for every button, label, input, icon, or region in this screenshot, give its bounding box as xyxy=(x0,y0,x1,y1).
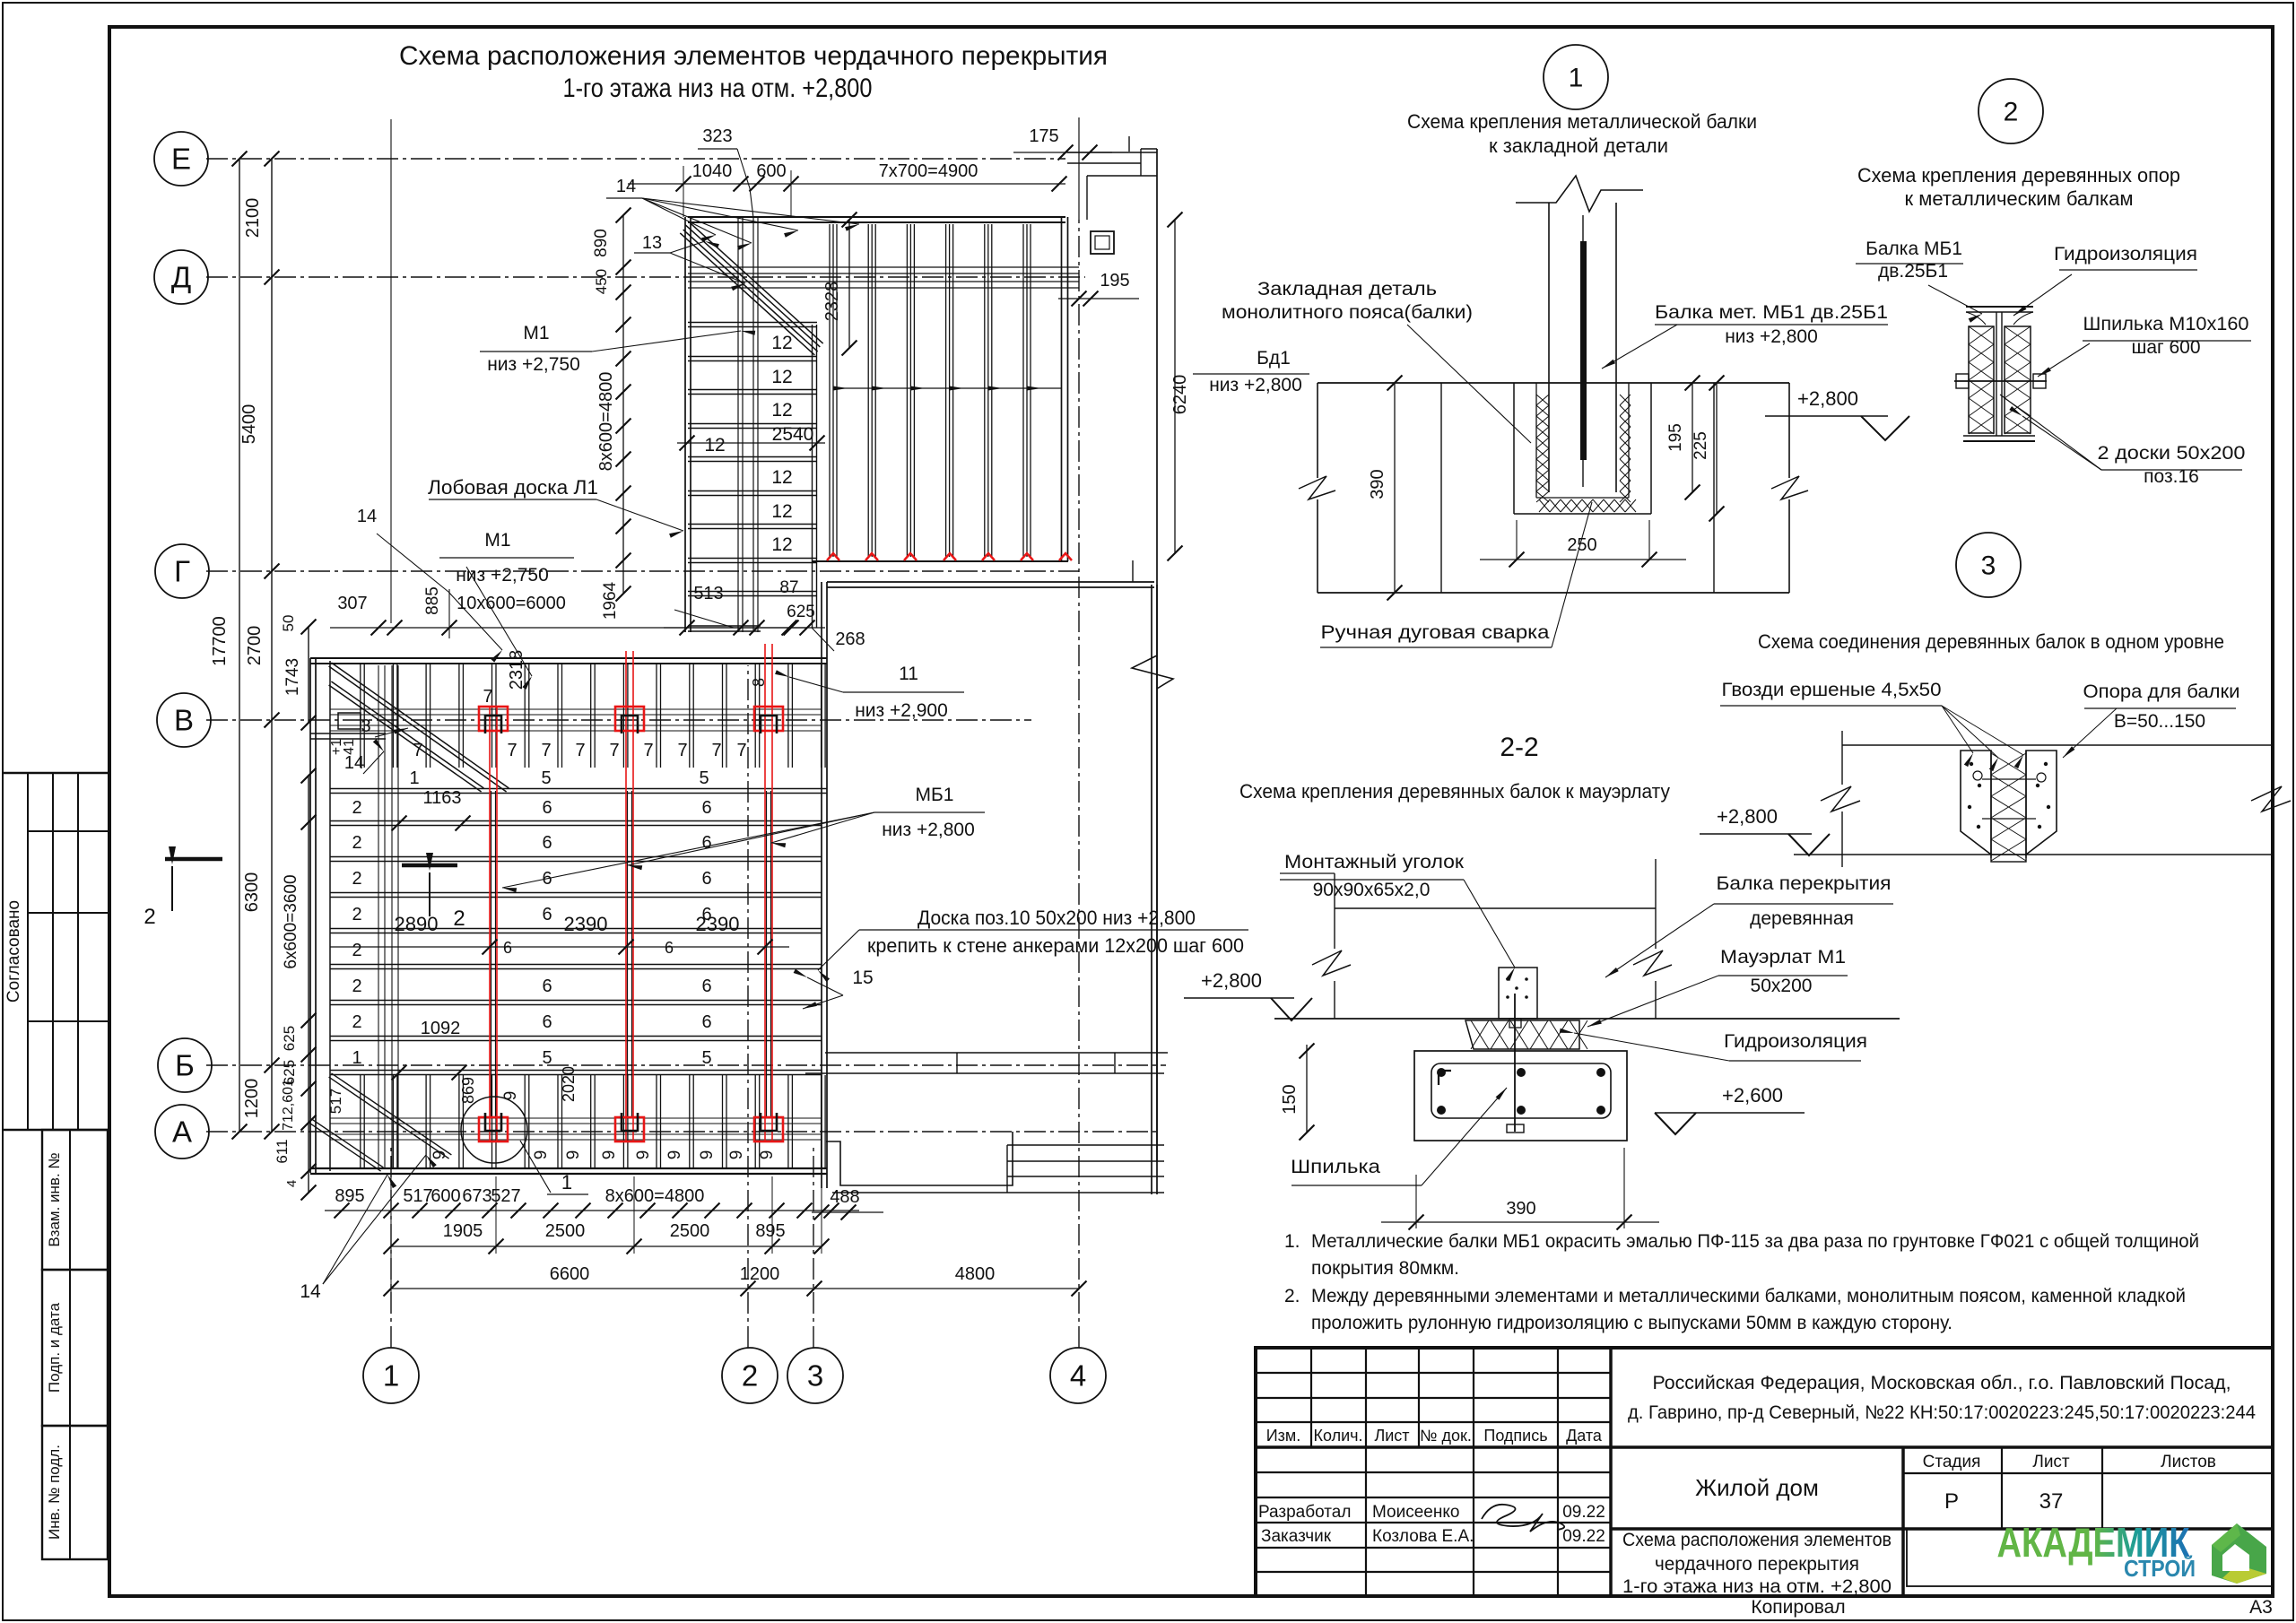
svg-text:195: 195 xyxy=(1666,423,1685,452)
svg-text:12: 12 xyxy=(771,367,792,387)
upper field right chord xyxy=(1061,217,1063,561)
upper field bottom edge xyxy=(812,560,1068,562)
dim 250 xyxy=(1516,520,1518,560)
detail 1 belt bottom xyxy=(1318,592,1789,594)
svg-text:11: 11 xyxy=(899,664,918,684)
svg-text:2500: 2500 xyxy=(670,1221,710,1241)
svg-text:5: 5 xyxy=(699,768,709,788)
svg-text:14: 14 xyxy=(616,177,636,196)
axis circle E xyxy=(154,132,208,186)
axis circle V xyxy=(157,693,211,747)
upper field left chord xyxy=(684,217,686,632)
svg-text:90х90х65х2,0: 90х90х65х2,0 xyxy=(1313,880,1431,900)
svg-text:6: 6 xyxy=(542,798,552,818)
svg-text:Согласовано: Согласовано xyxy=(4,900,23,1002)
svg-text:Схема соединения деревянных ба: Схема соединения деревянных балок в одно… xyxy=(1758,630,2224,653)
svg-text:Изм.: Изм. xyxy=(1266,1427,1301,1445)
vert dim chain 8x600 xyxy=(622,215,624,594)
svg-text:7: 7 xyxy=(507,741,517,760)
d3 hanger right plate xyxy=(2026,751,2057,855)
d2 web xyxy=(1996,312,1997,436)
svg-text:6600: 6600 xyxy=(550,1264,590,1284)
axis A line xyxy=(206,1131,1157,1133)
axis circle 3 xyxy=(787,1348,843,1403)
d3 nail dots xyxy=(1970,762,1973,766)
svg-text:9: 9 xyxy=(698,1150,717,1160)
svg-text:Заказчик: Заказчик xyxy=(1261,1527,1332,1546)
svg-text:12: 12 xyxy=(771,333,792,353)
left margin table Inv N podl xyxy=(42,1426,108,1559)
axis V beam band xyxy=(330,708,822,710)
left dim chain inner xyxy=(271,159,273,1132)
svg-text:2-2: 2-2 xyxy=(1500,733,1538,762)
svg-text:А: А xyxy=(172,1115,192,1149)
svg-text:390: 390 xyxy=(1506,1199,1535,1219)
svg-text:7: 7 xyxy=(609,741,619,760)
svg-text:225: 225 xyxy=(1692,431,1710,460)
lower field top chord xyxy=(310,663,827,664)
row V bottom line xyxy=(330,793,827,794)
svg-text:895: 895 xyxy=(335,1186,364,1206)
svg-text:5: 5 xyxy=(542,1048,552,1068)
svg-text:Д: Д xyxy=(171,261,191,294)
detail 1 circle xyxy=(1544,45,1608,109)
svg-text:2: 2 xyxy=(352,798,361,818)
svg-text:2390: 2390 xyxy=(696,913,740,935)
svg-text:1-го этажа низ на отм. +2,800: 1-го этажа низ на отм. +2,800 xyxy=(1622,1576,1892,1597)
svg-text:17700: 17700 xyxy=(210,616,230,666)
svg-text:1: 1 xyxy=(352,1048,361,1068)
dim 225 xyxy=(1716,383,1718,514)
section mark 2 inner xyxy=(402,864,457,868)
axis circle 1 xyxy=(363,1348,419,1403)
bottom dim chain 2 xyxy=(391,1245,822,1247)
diag lower top-left 2 xyxy=(329,685,482,792)
bottom dim chain 3 xyxy=(391,1288,1079,1289)
svg-text:9: 9 xyxy=(532,1150,551,1160)
s22 bolt top xyxy=(1509,1019,1521,1028)
svg-text:3: 3 xyxy=(807,1359,823,1393)
svg-text:1200: 1200 xyxy=(242,1079,262,1119)
axis 4 line xyxy=(1078,220,1080,1348)
svg-text:4: 4 xyxy=(284,1180,300,1187)
svg-text:+2,800: +2,800 xyxy=(1717,805,1778,828)
red beams xyxy=(489,706,491,1141)
svg-text:2: 2 xyxy=(352,869,361,889)
diag lower top-left 1 xyxy=(329,666,507,792)
diag bottom-left 1 xyxy=(329,1077,449,1159)
svg-text:Монтажный уголок: Монтажный уголок xyxy=(1284,852,1465,872)
svg-text:монолитного пояса(балки): монолитного пояса(балки) xyxy=(1222,302,1473,323)
svg-text:2020: 2020 xyxy=(560,1066,578,1102)
svg-text:3: 3 xyxy=(1981,551,1996,581)
svg-text:2: 2 xyxy=(352,1012,361,1032)
svg-text:Металлические балки МБ1 окраси: Металлические балки МБ1 окрасить эмалью … xyxy=(1311,1231,2199,1252)
dim line 2540 xyxy=(677,442,825,444)
left margin table Podp i data xyxy=(42,1270,108,1426)
svg-text:12: 12 xyxy=(704,435,725,456)
svg-text:Стадия: Стадия xyxy=(1923,1453,1981,1471)
svg-text:Гидроизоляция: Гидроизоляция xyxy=(1724,1031,1867,1052)
detail 1 beam break top xyxy=(1516,176,1643,212)
svg-text:150: 150 xyxy=(1280,1084,1300,1114)
d2 right board xyxy=(2005,326,2031,433)
signature xyxy=(1482,1505,1564,1532)
svg-text:37: 37 xyxy=(2039,1489,2064,1514)
svg-text:307: 307 xyxy=(337,594,367,613)
svg-text:Жилой дом: Жилой дом xyxy=(1695,1474,1819,1501)
svg-text:+2,600: +2,600 xyxy=(1722,1084,1783,1107)
left margin table Soglasovano xyxy=(3,772,109,774)
svg-text:покрытия 80мкм.: покрытия 80мкм. xyxy=(1311,1258,1459,1279)
svg-text:1.: 1. xyxy=(1284,1231,1300,1252)
svg-text:885: 885 xyxy=(423,586,442,615)
svg-text:Е: Е xyxy=(171,143,191,176)
dim chain mid xyxy=(664,627,807,629)
svg-text:09.22: 09.22 xyxy=(1562,1527,1605,1546)
lower field inner left xyxy=(329,661,331,1171)
dim 390 xyxy=(1394,383,1396,593)
detail 1 black plate xyxy=(1580,241,1587,460)
svg-text:268: 268 xyxy=(835,629,865,649)
svg-text:9: 9 xyxy=(634,1150,653,1160)
svg-text:Схема крепления металлической: Схема крепления металлической балки xyxy=(1407,110,1757,133)
svg-text:195: 195 xyxy=(1100,271,1129,291)
row line 1196 xyxy=(330,1074,822,1076)
lower field left chord xyxy=(309,658,311,1173)
svg-text:6: 6 xyxy=(542,833,552,853)
svg-text:611: 611 xyxy=(274,1139,291,1163)
axis B line xyxy=(206,1064,1166,1066)
svg-text:6: 6 xyxy=(701,798,711,818)
pocket hatch X right xyxy=(1620,395,1631,405)
svg-text:1163: 1163 xyxy=(422,788,461,808)
axis circle G xyxy=(155,544,209,598)
svg-text:7x700=4900: 7x700=4900 xyxy=(879,161,978,181)
axis circle A xyxy=(155,1105,209,1159)
room break right xyxy=(1132,655,1173,689)
svg-text:Гидроизоляция: Гидроизоляция xyxy=(2054,244,2197,265)
svg-text:7: 7 xyxy=(677,741,687,760)
axis1 beam strip xyxy=(378,665,379,1169)
svg-text:600: 600 xyxy=(430,1186,460,1206)
detail 1 pocket xyxy=(1513,383,1515,514)
svg-text:12: 12 xyxy=(771,534,792,555)
svg-text:6: 6 xyxy=(701,833,711,853)
axis E line xyxy=(206,158,1065,160)
svg-text:7: 7 xyxy=(575,741,585,760)
svg-text:13: 13 xyxy=(642,233,662,253)
s22 corner plate xyxy=(1499,968,1537,1019)
room outline xyxy=(821,582,822,1188)
svg-text:к закладной детали: к закладной детали xyxy=(1489,135,1668,157)
node circle at first A square xyxy=(461,1097,527,1163)
svg-text:Моисеенко: Моисеенко xyxy=(1372,1503,1459,1522)
svg-text:низ +2,800: низ +2,800 xyxy=(882,820,975,840)
svg-text:М1: М1 xyxy=(523,323,549,343)
black beam lines under red xyxy=(491,791,492,1117)
svg-text:2: 2 xyxy=(352,941,361,960)
window square xyxy=(1091,231,1114,254)
upper field top chord xyxy=(688,221,1065,223)
svg-text:87: 87 xyxy=(779,578,798,597)
svg-text:9: 9 xyxy=(564,1150,583,1160)
axis 1 upper extension xyxy=(390,119,392,623)
svg-text:6300: 6300 xyxy=(242,872,262,913)
svg-text:6: 6 xyxy=(542,976,552,996)
d3 right vertical + break xyxy=(2271,731,2273,785)
svg-text:Инв. № подл.: Инв. № подл. xyxy=(46,1445,63,1540)
s22 stud vertical xyxy=(1514,1019,1516,1132)
svg-text:Закладная деталь: Закладная деталь xyxy=(1257,279,1437,299)
svg-text:+2,800: +2,800 xyxy=(1797,387,1858,410)
diag bottom-left 2 xyxy=(309,1123,381,1171)
axis G line xyxy=(206,570,1079,572)
d3 center strip hatch xyxy=(1990,751,1992,858)
svg-text:Балка перекрытия: Балка перекрытия xyxy=(1717,873,1892,894)
svg-text:9: 9 xyxy=(758,1150,777,1160)
svg-text:Лист: Лист xyxy=(1374,1427,1409,1445)
title block horizontals xyxy=(1256,1372,1611,1374)
M1 piece rect xyxy=(338,713,361,729)
pocket hatch X left xyxy=(1536,395,1549,405)
svg-text:517: 517 xyxy=(403,1186,432,1206)
s22 level line xyxy=(1274,1018,1900,1020)
s22 concrete beam xyxy=(1414,1051,1627,1141)
svg-text:2 доски 50х200: 2 доски 50х200 xyxy=(2098,443,2246,464)
axis 3 line xyxy=(813,1148,814,1348)
svg-text:1: 1 xyxy=(383,1359,399,1393)
svg-text:1: 1 xyxy=(561,1171,572,1193)
svg-text:2328: 2328 xyxy=(822,282,842,322)
svg-text:Разработал: Разработал xyxy=(1258,1503,1351,1522)
section mark 2 left xyxy=(165,857,222,862)
d2 bottom flange xyxy=(1963,435,2035,437)
svg-text:7: 7 xyxy=(541,741,551,760)
svg-text:2100: 2100 xyxy=(243,198,263,239)
svg-text:527: 527 xyxy=(491,1186,520,1206)
svg-text:890: 890 xyxy=(592,229,611,257)
svg-text:Лист: Лист xyxy=(2032,1453,2070,1471)
svg-text:8х600=4800: 8х600=4800 xyxy=(605,1186,705,1206)
dim 2328 xyxy=(848,220,850,348)
pocket hatch X bottom xyxy=(1539,499,1550,512)
upper field vertical joists xyxy=(829,224,831,557)
axis D line xyxy=(206,276,1085,278)
svg-text:8x600=4800: 8x600=4800 xyxy=(596,372,616,472)
svg-text:2: 2 xyxy=(742,1359,758,1393)
svg-text:2500: 2500 xyxy=(545,1221,586,1241)
svg-text:Бд1: Бд1 xyxy=(1257,348,1291,369)
svg-text:Копировал: Копировал xyxy=(1751,1597,1845,1618)
axis2 beam strip upper xyxy=(737,217,739,632)
joists 9 vertical row xyxy=(360,1075,361,1169)
svg-text:9: 9 xyxy=(665,1150,684,1160)
svg-text:низ +2,800: низ +2,800 xyxy=(1209,375,1302,395)
svg-text:СТРОЙ: СТРОЙ xyxy=(2124,1555,2196,1582)
svg-text:2: 2 xyxy=(143,905,155,929)
svg-text:488: 488 xyxy=(830,1187,859,1207)
svg-text:Лобовая доска Л1: Лобовая доска Л1 xyxy=(428,476,598,499)
svg-text:Козлова Е.А.: Козлова Е.А. xyxy=(1372,1527,1474,1546)
svg-text:Колич.: Колич. xyxy=(1313,1427,1362,1445)
joists horizontal 2/6 rows xyxy=(330,825,822,827)
svg-text:4: 4 xyxy=(1070,1359,1086,1393)
d2 left board xyxy=(1969,326,1994,433)
svg-text:7: 7 xyxy=(413,741,422,760)
spacing arrows line xyxy=(833,387,1062,389)
svg-text:Ручная дуговая сварка: Ручная дуговая сварка xyxy=(1321,622,1550,643)
svg-text:09.22: 09.22 xyxy=(1562,1503,1605,1522)
logo cell border xyxy=(1907,1529,2273,1586)
svg-text:895: 895 xyxy=(755,1221,785,1241)
svg-text:1743: 1743 xyxy=(283,658,302,696)
svg-text:6: 6 xyxy=(701,1012,711,1032)
svg-text:Балка МБ1: Балка МБ1 xyxy=(1865,239,1962,259)
svg-text:12: 12 xyxy=(771,467,792,488)
svg-text:2: 2 xyxy=(352,905,361,924)
svg-text:Доска поз.10 50х200 низ +2,800: Доска поз.10 50х200 низ +2,800 xyxy=(918,907,1196,929)
svg-text:низ +2,750: низ +2,750 xyxy=(487,354,580,375)
svg-text:Р: Р xyxy=(1944,1489,1959,1514)
title block outer xyxy=(1256,1348,2273,1596)
detail 1 belt left/right xyxy=(1317,383,1318,478)
svg-text:6: 6 xyxy=(701,869,711,889)
svg-text:+2,800: +2,800 xyxy=(1201,969,1262,992)
svg-text:2: 2 xyxy=(453,907,465,931)
detail 1 beam columns xyxy=(1548,203,1550,492)
svg-text:Гвозди ершеные 4,5х50: Гвозди ершеные 4,5х50 xyxy=(1722,680,1942,700)
svg-text:1: 1 xyxy=(1569,64,1584,93)
axis circle 2 xyxy=(722,1348,778,1403)
svg-text:2540: 2540 xyxy=(772,424,814,445)
svg-text:Г: Г xyxy=(174,555,190,588)
left dim chain outer 17700 xyxy=(239,159,240,1132)
svg-text:МБ1: МБ1 xyxy=(916,785,954,805)
s22 dim 390 xyxy=(1415,1175,1417,1228)
dim 195 xyxy=(1692,383,1693,492)
svg-text:513: 513 xyxy=(693,584,723,603)
svg-text:№ док.: № док. xyxy=(1420,1427,1472,1445)
dim 6240 xyxy=(1174,220,1176,553)
svg-text:2318: 2318 xyxy=(507,650,526,690)
svg-text:712,601: 712,601 xyxy=(281,1079,296,1131)
red squares at A xyxy=(479,1117,508,1141)
svg-text:А3: А3 xyxy=(2249,1597,2273,1618)
axis circle D xyxy=(154,250,208,304)
svg-text:Схема расположения элементов: Схема расположения элементов xyxy=(1622,1530,1892,1550)
svg-text:Российская Федерация, Московск: Российская Федерация, Московская обл., г… xyxy=(1653,1373,2231,1393)
svg-text:1964: 1964 xyxy=(601,581,620,620)
svg-text:1200: 1200 xyxy=(740,1264,780,1284)
svg-text:7: 7 xyxy=(643,741,653,760)
svg-text:1: 1 xyxy=(409,768,419,788)
svg-text:9: 9 xyxy=(430,1150,449,1160)
svg-text:323: 323 xyxy=(702,126,732,146)
svg-text:Шпилька: Шпилька xyxy=(1291,1157,1380,1177)
svg-text:14: 14 xyxy=(300,1281,321,1302)
wall lower segment right xyxy=(1132,560,1134,582)
axis circle 4 xyxy=(1050,1348,1106,1403)
svg-text:625: 625 xyxy=(787,603,815,621)
svg-text:Схема крепления деревянных бал: Схема крепления деревянных балок к мауэр… xyxy=(1239,780,1670,803)
svg-text:6: 6 xyxy=(701,976,711,996)
svg-text:450: 450 xyxy=(593,269,610,294)
d3 left vertical + break xyxy=(1841,731,1843,785)
svg-text:175: 175 xyxy=(1029,126,1058,146)
svg-text:600: 600 xyxy=(756,161,786,181)
svg-text:низ +2,800: низ +2,800 xyxy=(1725,326,1818,347)
svg-text:14: 14 xyxy=(357,507,377,526)
red squares at V xyxy=(479,707,508,731)
svg-text:В: В xyxy=(174,704,194,737)
upper diagonal 1 xyxy=(685,225,820,347)
axis 1 line xyxy=(390,1148,392,1348)
svg-text:14: 14 xyxy=(344,753,364,773)
svg-text:чердачного перекрытия: чердачного перекрытия xyxy=(1655,1554,1859,1575)
d2 board hatch xyxy=(1969,326,2031,344)
mid dim chain 2890/2390 xyxy=(330,946,789,948)
d2 I-beam top flange xyxy=(1966,306,2033,308)
axis A beam band xyxy=(330,1117,822,1119)
svg-text:7: 7 xyxy=(483,687,492,707)
detail 1 inner verticals xyxy=(1440,383,1442,593)
svg-text:5: 5 xyxy=(701,1048,711,1068)
svg-text:4800: 4800 xyxy=(955,1264,996,1284)
svg-text:10x600=6000: 10x600=6000 xyxy=(457,594,566,613)
svg-text:д. Гаврино, пр-д Северный, №22: д. Гаврино, пр-д Северный, №22 КН:50:17:… xyxy=(1628,1402,2256,1423)
svg-text:1905: 1905 xyxy=(443,1221,483,1241)
detail 2 circle xyxy=(1979,79,2043,143)
svg-text:Листов: Листов xyxy=(2161,1453,2216,1471)
svg-text:деревянная: деревянная xyxy=(1750,908,1854,929)
svg-text:Подп. и дата: Подп. и дата xyxy=(46,1302,63,1393)
svg-text:7: 7 xyxy=(711,741,721,760)
small dbl line xyxy=(310,738,386,740)
svg-text:15: 15 xyxy=(852,968,873,988)
red joist end marks upper xyxy=(827,553,839,560)
svg-text:6: 6 xyxy=(665,939,674,957)
svg-text:Мауэрлат М1: Мауэрлат М1 xyxy=(1720,947,1846,968)
svg-text:низ +2,750: низ +2,750 xyxy=(456,565,549,586)
svg-text:390: 390 xyxy=(1368,469,1387,499)
svg-text:5: 5 xyxy=(541,768,551,788)
svg-text:2700: 2700 xyxy=(245,626,265,666)
svg-text:12: 12 xyxy=(771,501,792,522)
s22 top-left guide lines xyxy=(1280,872,1335,874)
svg-text:2890: 2890 xyxy=(395,913,439,935)
svg-text:2.: 2. xyxy=(1284,1286,1300,1306)
detail 1 belt top line xyxy=(1318,382,1789,384)
svg-text:2: 2 xyxy=(352,833,361,853)
beam band at axis D xyxy=(688,266,1079,268)
svg-text:6240: 6240 xyxy=(1170,375,1190,415)
svg-text:Шпилька М10х160: Шпилька М10х160 xyxy=(2083,314,2249,334)
svg-text:Подпись: Подпись xyxy=(1483,1427,1547,1445)
svg-text:2: 2 xyxy=(352,976,361,996)
svg-text:7: 7 xyxy=(736,741,746,760)
svg-text:низ +2,900: низ +2,900 xyxy=(855,700,948,721)
svg-text:Схема расположения элементов ч: Схема расположения элементов чердачного … xyxy=(399,41,1108,71)
upper stair bottom xyxy=(688,630,761,632)
svg-text:673: 673 xyxy=(462,1186,491,1206)
d2 flange curves xyxy=(1966,312,2033,325)
svg-text:6: 6 xyxy=(503,939,512,957)
svg-text:869: 869 xyxy=(459,1077,477,1104)
steps bottom right xyxy=(826,1132,1013,1185)
svg-text:2: 2 xyxy=(2004,98,2019,127)
s22 dim 150 xyxy=(1306,1045,1308,1133)
